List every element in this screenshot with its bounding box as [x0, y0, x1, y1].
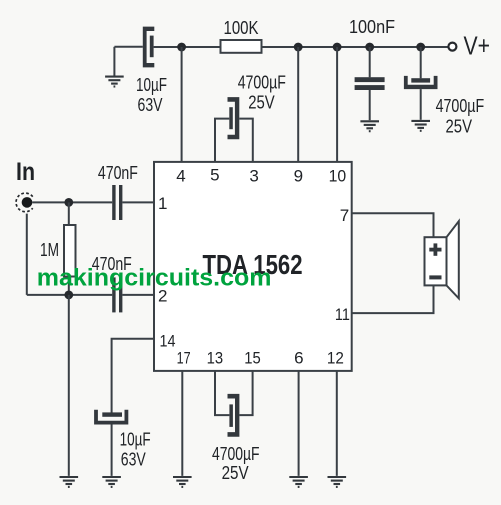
capacitor C7 10uF/63V bottom (polar vertical): [102, 412, 122, 416]
wire pin 14 to bottom cap: [112, 339, 154, 413]
svg-text:1M: 1M: [40, 240, 59, 260]
ground top-left: [105, 77, 124, 87]
ground pin 17: [173, 477, 192, 487]
wire connector shield drop: [26, 214, 28, 295]
wire 4700uF bottom lead: [420, 89, 422, 120]
svg-text:4700µF: 4700µF: [212, 444, 260, 464]
svg-text:9: 9: [294, 167, 303, 186]
wire pin 9 drop: [297, 47, 299, 162]
svg-text:17: 17: [177, 348, 191, 367]
capacitor C4 4700uF/25V between pins 5 and 3 (bracket right): [228, 97, 240, 139]
wire ground drop top-left: [113, 47, 115, 76]
wire 1M bottom lead: [68, 277, 70, 295]
label +: [429, 248, 441, 252]
wire bridge pin5 side: [215, 119, 229, 162]
capacitor C6 470nF bottom: [112, 277, 115, 312]
capacitor C5 470nF top: [112, 185, 115, 220]
svg-text:10: 10: [329, 167, 347, 186]
terminal V+: [448, 43, 456, 51]
capacitor C2 100nF: [355, 77, 385, 82]
svg-text:15: 15: [244, 348, 260, 367]
svg-text:1: 1: [158, 194, 167, 213]
wire 1M top lead: [68, 202, 70, 225]
wire rail cap to resistor: [154, 46, 221, 48]
resistor R1 100K: [221, 40, 262, 53]
svg-text:10µF: 10µF: [120, 430, 151, 450]
svg-text:4700µF: 4700µF: [436, 96, 485, 116]
wire pin 11 to speaker: [352, 286, 434, 314]
wire pin 4 drop: [181, 47, 183, 162]
svg-text:5: 5: [210, 166, 219, 185]
wire C5 to pin 1: [122, 201, 154, 203]
capacitor C1 10uF/63V (polar, bracket left): [143, 27, 155, 68]
svg-text:14: 14: [160, 332, 176, 351]
svg-text:3: 3: [249, 167, 258, 186]
wire pin 10 drop: [336, 47, 338, 162]
wire 100nF bottom lead: [369, 90, 371, 120]
svg-text:12: 12: [327, 348, 344, 367]
ground under bottom 10uF: [102, 477, 121, 487]
wire 4700uF top lead: [420, 47, 422, 78]
node junction pin9 rail: [294, 43, 303, 52]
svg-text:100K: 100K: [224, 18, 259, 38]
wire bottom cap to ground: [111, 425, 113, 476]
svg-text:V+: V+: [464, 31, 491, 61]
wire bridge to pin 15: [239, 371, 252, 415]
svg-text:10µF: 10µF: [136, 75, 167, 95]
svg-text:4700µF: 4700µF: [238, 72, 286, 92]
ground pin 12: [328, 477, 347, 487]
op-amp U1 TDA1562 body: [154, 162, 352, 371]
svg-text:470nF: 470nF: [98, 163, 138, 183]
wire bridge pin3 side: [239, 119, 253, 162]
svg-text:63V: 63V: [138, 95, 163, 115]
wire pin 7 to speaker: [352, 213, 434, 237]
svg-text:25V: 25V: [446, 116, 473, 136]
wire input to C5: [32, 201, 112, 203]
capacitor C3 4700uF/25V (polar vertical): [411, 78, 430, 82]
node junction pin10 rail: [333, 43, 342, 52]
label -: [429, 275, 441, 279]
wire 100nF top lead: [369, 47, 371, 77]
svg-text:7: 7: [340, 206, 349, 225]
svg-text:11: 11: [335, 305, 350, 324]
ground under 4700uF: [411, 121, 430, 131]
wire C6 to pin 2: [122, 294, 154, 296]
node junction 1M bottom: [64, 291, 73, 300]
node junction input / 1M: [64, 198, 73, 207]
ground under 100nF: [360, 121, 379, 131]
node junction 100nF rail: [365, 43, 374, 52]
svg-text:63V: 63V: [121, 449, 146, 469]
connector J1 input (dashed ring): [16, 193, 33, 212]
wire pin 17 drop: [181, 371, 183, 476]
svg-text:100nF: 100nF: [349, 17, 395, 37]
ground pin 6: [289, 477, 308, 487]
wire lower input line: [27, 294, 112, 296]
wire ground drop from 1M node: [68, 295, 70, 476]
svg-text:4: 4: [176, 167, 185, 186]
node junction pin4 rail: [177, 43, 186, 52]
speaker LS1 cone: [447, 221, 459, 298]
wire top rail left segment to ground stub: [114, 46, 142, 48]
svg-text:6: 6: [294, 348, 303, 367]
svg-text:makingcircuits.com: makingcircuits.com: [37, 265, 272, 292]
ground bottom-left: [60, 477, 79, 487]
svg-text:13: 13: [207, 348, 224, 367]
svg-text:25V: 25V: [248, 93, 275, 113]
wire pin 12 drop: [336, 371, 338, 476]
wire pin 6 drop: [298, 371, 300, 476]
node junction 4700uF rail: [416, 43, 425, 52]
resistor R2 1M: [64, 225, 76, 277]
speaker LS1 body: [425, 237, 447, 285]
capacitor C8 4700uF/25V between pins 13 and 15 (bracket right): [228, 394, 240, 437]
svg-text:In: In: [16, 158, 35, 186]
wire pin 13 drop and bridge: [215, 371, 229, 415]
wire rail resistor to V+: [262, 46, 448, 48]
svg-text:25V: 25V: [222, 463, 249, 483]
